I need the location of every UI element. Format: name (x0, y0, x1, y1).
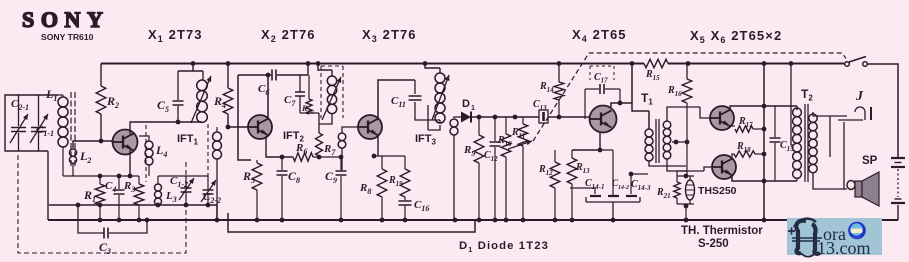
IFT1 shield can dashed (146, 124, 208, 182)
battery cells (891, 158, 905, 220)
svg-text:SONY TR610: SONY TR610 (41, 32, 94, 42)
stage label X2 2T76 (261, 27, 316, 44)
resistor R8 (377, 156, 387, 220)
label C1-1 (36, 124, 54, 138)
label IFT3 (415, 133, 437, 147)
resistor R17 horizontal (730, 126, 764, 132)
label C2-1 (11, 98, 29, 112)
capacitor C8 (277, 155, 288, 220)
transistor X2 (248, 115, 272, 139)
label R5 (242, 169, 255, 185)
wire X5 base (0, 0, 1, 1)
resistor R13 (567, 150, 577, 220)
label R12 (538, 164, 553, 177)
watermark text 13.com (817, 238, 871, 258)
label R3 (123, 180, 135, 194)
capacitor C16 (399, 201, 412, 220)
label R9 (463, 144, 475, 158)
wire X6 base (0, 0, 1, 1)
transistor X5 (710, 106, 734, 130)
variable capacitor C1-2 (179, 176, 194, 205)
IFT1 secondary coil (213, 127, 222, 220)
label C14-1 (585, 178, 605, 191)
label C14-3 (631, 179, 651, 192)
capacitor C9 (336, 157, 347, 220)
wire X3 collector up (378, 80, 415, 118)
label R19 (388, 175, 403, 188)
capacitor C4 (114, 176, 125, 220)
wire T1 sec tap (672, 142, 687, 176)
svg-text:SONY: SONY (22, 7, 110, 32)
label C9 (325, 169, 337, 185)
capacitor C13 boxed (539, 110, 548, 123)
wire y171 bus (0, 0, 1, 1)
capacitor C17 (585, 84, 622, 119)
label R13 (575, 162, 590, 175)
wire emitter bypass vertical (600, 150, 613, 196)
label IFT1 (177, 133, 199, 147)
oscillator coil L3 (155, 176, 162, 205)
wire X3 emitter (372, 136, 405, 158)
capacitor C12 (490, 117, 501, 220)
variable capacitor C1-1 (30, 95, 48, 151)
IFT3 primary coil (425, 64, 445, 124)
resistor R10 (501, 117, 511, 220)
capacitor C7 (295, 75, 305, 113)
watermark box (787, 218, 882, 255)
resistor R7 (316, 113, 323, 157)
resistor R15 horizontal (644, 59, 668, 67)
resistor R2 (96, 86, 106, 114)
label R2 (106, 94, 119, 110)
label C6 (258, 83, 269, 97)
IFT1 tuning arrow (191, 76, 211, 123)
transistor X6 (712, 155, 736, 179)
wire B minus vertical (762, 64, 767, 221)
wire rail to R4 (227, 64, 229, 89)
watermark H glyph (788, 219, 822, 257)
capacitor C14-2 electrolytic (608, 195, 619, 197)
wire y113 bus stage2 (300, 112, 319, 114)
label R8 (359, 182, 371, 196)
label C17 (594, 72, 608, 85)
IFT2 secondary coil (338, 127, 358, 170)
label L3 (165, 190, 177, 204)
label D1 (462, 98, 476, 112)
wire switch to battery (868, 64, 898, 157)
resistor R3 (134, 176, 144, 220)
svg-text:TH. Thermistor: TH. Thermistor (681, 225, 763, 237)
label J (855, 89, 864, 104)
wire X5 collector (730, 104, 797, 110)
label R14 (539, 81, 554, 94)
transistor X1 (113, 130, 138, 155)
caption D1 Diode 1T23 (459, 240, 549, 254)
label C7 (284, 94, 296, 108)
variable capacitor C2-1 (10, 95, 28, 151)
junction dots ground rail (98, 218, 767, 223)
antenna frame box (5, 95, 58, 151)
label C12 (484, 150, 498, 163)
wire antenna top (58, 94, 63, 96)
wire lower return rail (228, 213, 475, 232)
wire R13 to X4 emitter (572, 133, 600, 150)
resistor R1 (95, 176, 105, 220)
capacitor C3 (76, 203, 147, 239)
antenna coil L1 (58, 95, 68, 152)
label R11 (511, 127, 525, 140)
resistor R5 (252, 160, 262, 220)
IFT2 tuning arrow (322, 77, 341, 120)
wire R2 to X1 base (73, 114, 112, 148)
transformer T2 core (805, 104, 808, 182)
wire ground rail (48, 219, 898, 221)
wire C14 tray to ground (612, 202, 614, 220)
svg-text:X3 2T76: X3 2T76 (362, 27, 417, 44)
capacitor C14-3 electrolytic (626, 172, 648, 196)
thermistor THS (677, 174, 695, 220)
label C8 (288, 169, 300, 185)
resistor R12 (550, 150, 560, 220)
AGC dashed line (533, 53, 846, 141)
resistor R14 (554, 64, 564, 118)
label R10 (497, 135, 512, 148)
label R1 (83, 188, 96, 204)
label R6 (295, 142, 307, 156)
wire IFT3 bottom (428, 105, 440, 130)
label C13 (533, 99, 547, 112)
svg-text:X2 2T76: X2 2T76 (261, 27, 316, 44)
svg-text:J: J (855, 89, 864, 104)
stage label X4 2T65 (572, 27, 627, 44)
watermark text ora (823, 224, 846, 244)
variable capacitor C2-2 (201, 176, 216, 205)
capacitor C15 (770, 106, 781, 181)
wire R21 top node (677, 171, 687, 176)
ferrite rod core (71, 92, 75, 168)
label C16 (414, 199, 429, 213)
label IFT2 (283, 130, 305, 144)
label L2 (79, 149, 91, 165)
label THS250 (698, 185, 737, 197)
label L4 (155, 143, 167, 159)
label C14-2 (612, 178, 629, 191)
resistor R18 horizontal (732, 151, 764, 158)
label R16 (667, 85, 682, 98)
label C2-2 (203, 191, 221, 205)
label R4 (213, 94, 226, 110)
label R15 (645, 69, 660, 82)
wire X4 collector to T1 (611, 64, 649, 130)
label R10a (301, 103, 314, 116)
label T1 (641, 91, 653, 107)
stage label X3 2T76 (362, 27, 417, 44)
label C4 (105, 180, 116, 194)
caption TH. Thermistor (681, 225, 763, 237)
wire X4 emitter down (598, 148, 603, 153)
svg-text:THS250: THS250 (698, 185, 737, 197)
SONY TR610 subtitle (41, 32, 94, 42)
wire X1 collector to tank (130, 120, 202, 134)
wire X1 emitter (129, 150, 131, 176)
junction dots y205 bus (98, 203, 211, 208)
transformer T1 core (656, 119, 659, 163)
capacitor C11 (409, 80, 441, 120)
svg-text:13.com: 13.com (817, 238, 871, 258)
wire rail drop x308 (306, 61, 311, 75)
label R17 (738, 116, 753, 129)
C17 dashed box (590, 66, 614, 80)
resistor R6 (293, 153, 313, 161)
label C1-2 (170, 175, 188, 189)
IFT1 primary coil (178, 64, 207, 123)
wire X2 emitter (266, 136, 293, 157)
transformer T2 secondary (809, 114, 847, 189)
transistor X4 (590, 106, 617, 133)
IFT2 primary coil (316, 61, 337, 124)
wire y176 emitter bus (63, 174, 139, 179)
stage label X5 X6 2T65x2 (690, 28, 782, 45)
label R18 (736, 141, 751, 154)
IFT3 secondary coil (450, 117, 461, 220)
capacitor C6 (238, 70, 308, 81)
label L1 (45, 87, 57, 103)
wire rail to R2 (100, 64, 102, 87)
tuning gang dashed link (18, 155, 186, 253)
stage label X1 2T73 (148, 27, 203, 44)
wire R6 to C9 (313, 155, 343, 160)
capacitor C14-1 electrolytic (570, 188, 640, 202)
label C5 (157, 98, 169, 114)
wire y205 bus stage1 (49, 205, 217, 220)
resistor R19 (400, 156, 410, 200)
transformer T1 secondary (663, 107, 712, 171)
svg-text:S-250: S-250 (698, 238, 729, 250)
transformer T1 primary (645, 129, 686, 166)
wire C5 top (0, 0, 1, 1)
transistor X3 (358, 115, 382, 139)
volume pot R11 (508, 117, 532, 220)
wire top supply rail (101, 63, 844, 65)
label T2 (801, 87, 813, 103)
svg-text:X4 2T65: X4 2T65 (572, 27, 627, 44)
junction dots top rail (191, 61, 794, 66)
label C15 (780, 140, 794, 153)
IFT3 tuning arrow (432, 75, 450, 120)
label C11 (391, 95, 406, 109)
wire X2 collector up (266, 73, 271, 118)
SONY logo (22, 7, 110, 32)
capacitor C5 (173, 71, 184, 122)
wire tank top (158, 175, 208, 177)
earphone jack (813, 107, 871, 190)
diode D1 (461, 112, 539, 123)
watermark globe (848, 222, 866, 240)
resistor R21 (674, 176, 680, 204)
oscillator coil L4 (139, 136, 153, 176)
wire C13 to X4 base (548, 115, 589, 120)
wire R4 to X2 base (226, 114, 248, 129)
svg-text:X1 2T73: X1 2T73 (148, 27, 203, 44)
resistor R16 (674, 64, 692, 145)
caption S-250 (698, 238, 729, 250)
wire left outer vertical (47, 151, 49, 220)
speaker (855, 172, 879, 206)
label R7 (323, 143, 336, 157)
wire stage2 left vertical (238, 75, 251, 160)
resistor R10a (306, 75, 312, 114)
label SP (862, 155, 878, 167)
wire L1 bottom to bus (62, 152, 64, 176)
transformer T2 primary (791, 64, 801, 182)
wire X6 collector (732, 176, 797, 183)
resistor R4 (223, 88, 233, 114)
svg-text:SP: SP (862, 155, 878, 167)
power switch (845, 57, 868, 67)
label R21 (656, 187, 671, 200)
IFT2 shield can dashed (321, 66, 343, 118)
label C3 (99, 240, 111, 256)
coil L2 (69, 149, 76, 176)
resistor R9 (474, 117, 484, 220)
svg-text:D1 Diode 1T23: D1 Diode 1T23 (459, 240, 549, 254)
